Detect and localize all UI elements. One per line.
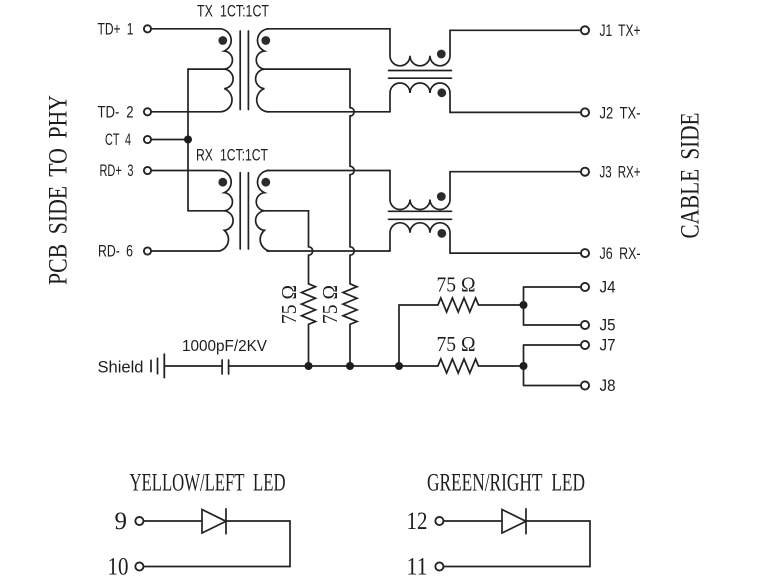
pin 12 terminal bbox=[435, 517, 443, 525]
wire T1 primary center tap to CT node bbox=[188, 68, 224, 70]
wire choke L1 to J1 bbox=[450, 29, 581, 31]
wire pin 12 to LED D2 bbox=[444, 520, 502, 522]
wire RX+ row: T2 secondary top to choke L2 with hop over R2 bus bbox=[267, 170, 390, 172]
resistor R2 75 ohm vertical bbox=[343, 284, 357, 366]
terminal J3 bbox=[581, 168, 589, 176]
pin RD- 6 terminal bbox=[144, 247, 151, 254]
choke L1 bottom dot bbox=[437, 88, 446, 97]
transformer T2 primary dot bbox=[218, 178, 227, 187]
pin CT 4 terminal bbox=[144, 136, 151, 143]
node R3 branch junction bbox=[395, 362, 403, 370]
transformer T1 TX primary winding bbox=[152, 29, 233, 112]
terminal J4 bbox=[581, 283, 589, 291]
svg-text:J3 RX+: J3 RX+ bbox=[600, 163, 641, 181]
wire LED D1 to pin 10 bbox=[144, 521, 290, 567]
choke L1 top winding bbox=[390, 29, 450, 66]
resistor R1 75 ohm vertical bbox=[302, 284, 316, 366]
transformer T1 primary dot bbox=[218, 36, 227, 45]
wire branch up to R3 row bbox=[399, 305, 438, 366]
svg-text:1000pF/2KV: 1000pF/2KV bbox=[182, 338, 268, 355]
pin TD- 2 terminal bbox=[144, 108, 151, 115]
pin RD+ 3 terminal bbox=[144, 167, 151, 174]
wire TX+ row: T1 secondary top to choke L1 bbox=[267, 28, 390, 30]
pin 11 terminal bbox=[435, 562, 443, 570]
terminal J6 bbox=[581, 249, 589, 257]
svg-text:YELLOW/LEFT LED: YELLOW/LEFT LED bbox=[130, 470, 286, 497]
choke L2 top winding bbox=[390, 171, 450, 210]
wire choke L1 to J2 bbox=[450, 111, 581, 113]
capacitor C1 1000pF/2KV bbox=[221, 360, 223, 374]
svg-text:J6 RX-: J6 RX- bbox=[600, 245, 641, 263]
wire CT vertical bus bbox=[187, 69, 189, 211]
transformer T2 RX secondary winding bbox=[256, 171, 269, 252]
LED D1 yellow bbox=[202, 509, 226, 534]
wire TX- row: T1 secondary bottom to choke L1 with hop over R2 bus bbox=[267, 111, 390, 113]
wire choke L2 to J6 bbox=[450, 252, 581, 254]
svg-text:TD- 2: TD- 2 bbox=[98, 104, 134, 122]
LED D2 green bbox=[502, 509, 526, 534]
choke L1 top dot bbox=[437, 50, 446, 59]
svg-text:75 Ω: 75 Ω bbox=[437, 332, 476, 356]
svg-text:11: 11 bbox=[407, 554, 428, 581]
choke L1 core bbox=[389, 70, 452, 72]
wire J7/J8 branch bbox=[524, 345, 582, 386]
wire T2 primary center tap to CT bus bbox=[188, 210, 224, 212]
node R1 to shield bus bbox=[305, 362, 313, 370]
svg-text:RX 1CT:1CT: RX 1CT:1CT bbox=[196, 147, 268, 165]
svg-text:TD+ 1: TD+ 1 bbox=[98, 21, 134, 39]
svg-text:Shield: Shield bbox=[98, 359, 144, 377]
svg-text:CABLE SIDE: CABLE SIDE bbox=[675, 113, 705, 239]
wire LED D2 to pin 11 bbox=[444, 521, 590, 567]
transformer T2 RX primary winding bbox=[152, 171, 233, 252]
pin 10 terminal bbox=[135, 562, 143, 570]
svg-text:TX 1CT:1CT: TX 1CT:1CT bbox=[197, 3, 269, 21]
wire J4/J5 branch bbox=[524, 287, 582, 325]
svg-text:9: 9 bbox=[115, 508, 128, 535]
wire shield to capacitor C1 bbox=[164, 365, 222, 367]
choke L2 bottom winding bbox=[390, 223, 450, 253]
svg-text:75 Ω: 75 Ω bbox=[437, 273, 476, 297]
node R2 to shield bus bbox=[346, 362, 354, 370]
pin TD+ 1 terminal bbox=[144, 25, 151, 32]
svg-text:J1 TX+: J1 TX+ bbox=[600, 22, 641, 40]
wire T1 secondary center tap to R2 bbox=[264, 69, 354, 284]
transformer T1 secondary dot bbox=[261, 36, 270, 45]
svg-text:J2 TX-: J2 TX- bbox=[600, 105, 641, 123]
svg-text:J7: J7 bbox=[600, 337, 616, 355]
svg-text:J5: J5 bbox=[600, 317, 616, 335]
choke L2 bottom dot bbox=[437, 229, 446, 238]
terminal J1 bbox=[581, 26, 589, 34]
choke L2 top dot bbox=[437, 192, 446, 201]
svg-text:75 Ω: 75 Ω bbox=[277, 285, 301, 324]
node R4 to J7/J8 bbox=[520, 362, 528, 370]
svg-text:PCB SIDE TO PHY: PCB SIDE TO PHY bbox=[43, 95, 73, 285]
svg-text:75 Ω: 75 Ω bbox=[318, 285, 342, 324]
wire capacitor to shield bus bbox=[229, 365, 438, 367]
svg-text:10: 10 bbox=[108, 554, 129, 581]
choke L2 core bbox=[389, 210, 452, 212]
wire CT pin to bus bbox=[152, 139, 188, 141]
node CT junction bbox=[184, 136, 192, 144]
resistor R4 75 ohm horizontal in shield bus bbox=[438, 359, 524, 373]
resistor R3 75 ohm horizontal bbox=[438, 298, 524, 312]
svg-text:J4: J4 bbox=[600, 279, 616, 297]
terminal J2 bbox=[581, 108, 589, 116]
svg-text:RD+ 3: RD+ 3 bbox=[100, 162, 134, 180]
svg-text:RD- 6: RD- 6 bbox=[98, 243, 133, 261]
shield terminal bars bbox=[150, 360, 152, 371]
transformer T1 core bbox=[239, 31, 241, 110]
svg-text:CT 4: CT 4 bbox=[105, 131, 131, 149]
svg-text:GREEN/RIGHT LED: GREEN/RIGHT LED bbox=[427, 470, 585, 497]
pin 9 terminal bbox=[135, 517, 143, 525]
wire T2 secondary center tap to R1 bbox=[264, 211, 312, 284]
choke L1 bottom winding bbox=[390, 83, 450, 112]
svg-text:J8: J8 bbox=[600, 377, 616, 395]
wire RX- row: T2 secondary bottom to choke L2 with hops over R1 and R2 buses bbox=[267, 250, 390, 252]
terminal J7 bbox=[581, 341, 589, 349]
transformer T2 secondary dot bbox=[261, 178, 270, 187]
wire pin 9 to LED D1 bbox=[144, 520, 202, 522]
node R3 to J4/J5 bbox=[520, 301, 528, 309]
terminal J5 bbox=[581, 321, 589, 329]
svg-text:12: 12 bbox=[407, 508, 428, 535]
terminal J8 bbox=[581, 381, 589, 389]
transformer T2 core bbox=[239, 173, 241, 249]
transformer T1 TX secondary winding bbox=[256, 29, 269, 112]
wire choke L2 to J3 bbox=[450, 171, 581, 173]
